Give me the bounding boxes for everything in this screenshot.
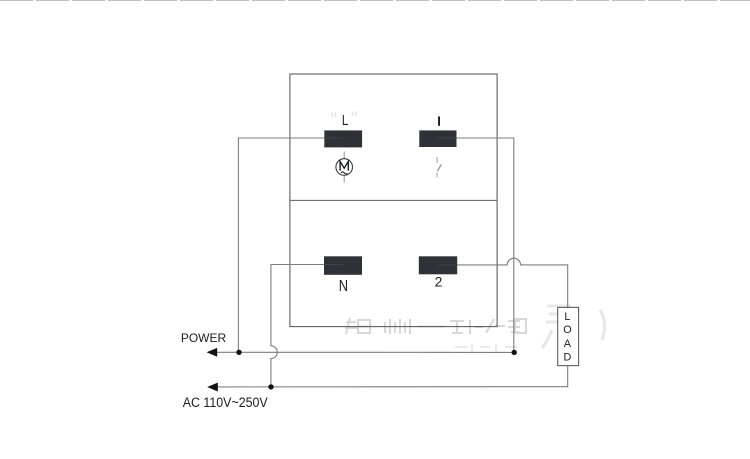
label 1 xyxy=(438,116,440,125)
junction dot N / AC xyxy=(268,384,273,389)
AC line xyxy=(209,366,568,387)
junction dot terminal1 / POWER xyxy=(512,350,517,355)
svg-text:D: D xyxy=(563,352,571,364)
LOAD box xyxy=(558,307,579,365)
watermark big glyph near LOAD xyxy=(542,306,605,350)
motor M1 xyxy=(336,152,353,183)
svg-text:L: L xyxy=(342,113,348,129)
junction dot L / POWER xyxy=(236,350,241,355)
switch S1 xyxy=(437,157,442,178)
svg-text:AC 110V~250V: AC 110V~250V xyxy=(183,395,268,410)
section divider xyxy=(290,199,497,201)
AC arrowhead xyxy=(207,383,218,392)
enclosure outline xyxy=(290,74,497,327)
watermark text band xyxy=(345,318,526,334)
svg-text:A: A xyxy=(564,338,572,350)
wire L to POWER line xyxy=(238,138,324,352)
wire N to AC line (hops over POWER line) xyxy=(271,265,324,387)
svg-text:O: O xyxy=(563,324,571,336)
wire terminal 2 to LOAD top (hops over terminal-1 wire) xyxy=(457,258,568,307)
terminal N xyxy=(324,256,362,275)
svg-text:L: L xyxy=(564,311,570,323)
svg-text:2: 2 xyxy=(435,273,443,289)
terminal 1 xyxy=(419,130,456,147)
svg-text:N: N xyxy=(339,278,348,295)
svg-text:POWER: POWER xyxy=(181,331,226,345)
terminal 2 xyxy=(419,256,457,274)
terminal L xyxy=(324,130,362,147)
wire terminal 1 to POWER line xyxy=(457,138,514,352)
POWER line xyxy=(209,351,514,353)
POWER arrowhead xyxy=(207,348,218,357)
